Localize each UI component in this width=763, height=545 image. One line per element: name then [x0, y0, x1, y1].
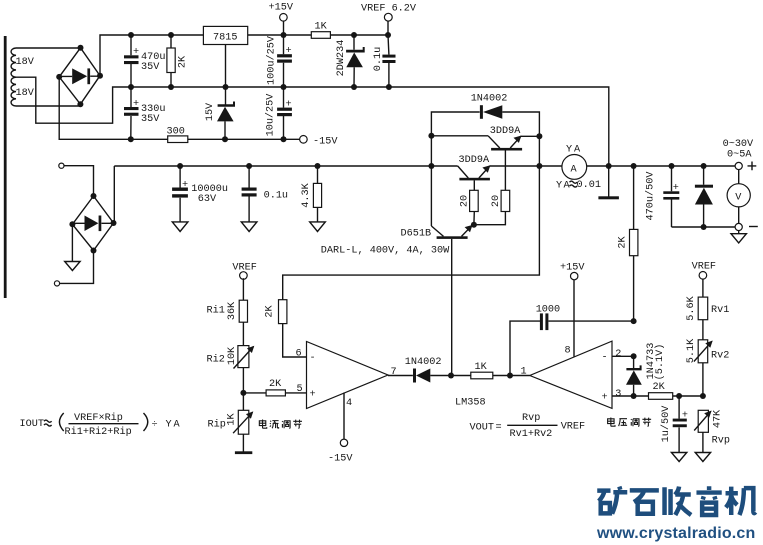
svg-text:+: + — [286, 100, 292, 111]
ground bar under Rip — [235, 451, 252, 454]
svg-text:1: 1 — [521, 367, 527, 378]
terminal output minus — [735, 223, 758, 230]
svg-text:+: + — [310, 390, 316, 401]
node 2K sense top — [631, 163, 637, 169]
node diode bottom — [701, 224, 707, 230]
svg-text:-: - — [310, 353, 316, 364]
svg-text:470u/50V: 470u/50V — [645, 171, 657, 221]
svg-text:2K: 2K — [177, 55, 188, 68]
node 470u bottom — [128, 84, 134, 90]
svg-text:18V: 18V — [16, 57, 35, 68]
node collector bus — [428, 163, 434, 169]
diode 1N4002 (op1 output) — [405, 357, 471, 383]
node 0.1u(2) top — [246, 163, 252, 169]
svg-text:1K: 1K — [227, 413, 238, 426]
svg-text:18V: 18V — [16, 88, 35, 99]
resistor 1K (op2 out to base) — [471, 362, 530, 379]
wire current sense rail — [283, 166, 540, 300]
svg-text:10u/25V: 10u/25V — [265, 93, 277, 137]
ammeter A — [556, 145, 601, 192]
bridge rectifier B1 — [56, 45, 103, 107]
node pin3 — [631, 393, 637, 399]
svg-text:+15V: +15V — [560, 263, 585, 274]
formula IOUT — [20, 412, 181, 438]
capacitor 0.1u (vref) — [373, 35, 395, 87]
node 2DW234 anode — [351, 84, 357, 90]
wire op2 pin2 — [612, 355, 634, 357]
svg-text:36K: 36K — [227, 301, 238, 320]
node common ref — [606, 163, 612, 169]
svg-text:2K: 2K — [618, 236, 629, 249]
svg-text:Ri1+Ri2+Rip: Ri1+Ri2+Rip — [65, 426, 132, 438]
watermark 矿石收音机 — [597, 486, 755, 515]
resistor 20 (right base ballast) — [474, 190, 510, 224]
svg-text:-15V: -15V — [313, 137, 338, 148]
svg-text:www.crystalradio.cn: www.crystalradio.cn — [596, 525, 755, 542]
node Q1 emitter — [536, 133, 542, 166]
svg-text:(5.1V): (5.1V) — [654, 344, 666, 381]
svg-text:A: A — [574, 145, 581, 156]
op-amp U1A LM358 (current) — [296, 342, 397, 410]
svg-text:VREF: VREF — [692, 262, 716, 273]
svg-text:5: 5 — [297, 384, 303, 395]
label output range — [723, 139, 754, 161]
node 10000u top — [177, 163, 183, 169]
svg-text:2: 2 — [615, 349, 621, 360]
transistor Q1 3DD9A (upper) — [488, 126, 539, 190]
resistor 20 (left base ballast) — [460, 190, 479, 224]
node feedback — [631, 318, 637, 324]
potentiometer Ri2 10K — [207, 346, 255, 393]
node 10u bottom — [281, 136, 287, 142]
capacitor 10000u/63V — [172, 166, 228, 232]
transformer T1 core bar — [4, 36, 7, 298]
svg-text:2K: 2K — [265, 305, 276, 318]
svg-text:0.1u: 0.1u — [264, 191, 288, 202]
svg-text:V: V — [735, 193, 742, 204]
svg-text:VOUT: VOUT — [470, 423, 494, 434]
wire output rail after ammeter — [587, 165, 736, 167]
node 1u top — [676, 393, 682, 399]
label 电压调节 voltage adjust — [608, 417, 652, 426]
svg-text:0~30V: 0~30V — [723, 139, 754, 150]
node 7815 gnd — [223, 84, 229, 90]
resistor 2K (bleeder) — [167, 35, 189, 87]
watermark url — [596, 525, 755, 542]
capacitor 470u/50V — [645, 166, 680, 227]
svg-text:100u/25V: 100u/25V — [266, 35, 278, 85]
resistor Ri1 36K — [207, 300, 248, 345]
svg-text:7815: 7815 — [213, 32, 237, 43]
capacitor 0.1u (main filter) — [241, 166, 288, 232]
wire op2 pin3 — [612, 395, 649, 397]
svg-text:1000: 1000 — [536, 305, 560, 316]
node op2 out — [507, 373, 513, 379]
svg-text:63V: 63V — [198, 194, 217, 205]
svg-text:+: + — [602, 393, 608, 404]
svg-text:LM358: LM358 — [455, 398, 486, 409]
svg-text:3: 3 — [615, 389, 621, 400]
svg-text:1K: 1K — [475, 362, 488, 373]
terminal -15V — [300, 136, 339, 148]
zener 2DW234 — [336, 35, 365, 87]
svg-text:VREF×Rip: VREF×Rip — [74, 412, 123, 424]
svg-text:3DD9A: 3DD9A — [459, 155, 490, 166]
svg-text:+: + — [133, 99, 139, 110]
ground B2 left vertex — [65, 224, 80, 270]
zener 1N4733 — [626, 343, 666, 396]
label 电流调节 current adjust — [259, 419, 302, 428]
svg-text:VREF 6.2V: VREF 6.2V — [361, 4, 417, 15]
svg-text:+: + — [133, 47, 139, 58]
capacitor 1000 (feedback) — [510, 305, 634, 376]
svg-text:Υ: Υ — [556, 181, 562, 192]
wire -15 rail right segment — [188, 138, 300, 140]
wire 7815 out — [248, 34, 312, 36]
node collector rail top — [428, 133, 488, 139]
svg-text:Υ: Υ — [166, 420, 172, 431]
terminal +15V (op2 pin8) — [560, 263, 585, 357]
wire output bottom rail — [672, 226, 736, 228]
svg-text:A: A — [571, 165, 578, 176]
wire winding center tap to 0V rail — [16, 77, 131, 123]
svg-text:Rvp: Rvp — [712, 436, 730, 447]
svg-text:-15V: -15V — [328, 454, 353, 465]
svg-text:IOUT: IOUT — [20, 419, 44, 430]
wire winding2 bottom to bridge B1 bottom — [16, 104, 80, 106]
svg-text:+: + — [182, 180, 188, 191]
svg-text:35V: 35V — [141, 114, 160, 125]
svg-text:5.6K: 5.6K — [686, 295, 697, 320]
zener 15V — [205, 87, 235, 139]
svg-text:Rv2: Rv2 — [711, 351, 729, 362]
resistor 300 — [167, 127, 188, 143]
resistor 2K (to op1 pin5) — [243, 379, 306, 396]
svg-text:20: 20 — [491, 195, 502, 207]
regulator U2 7815 — [203, 26, 247, 87]
svg-text:7: 7 — [391, 367, 397, 378]
wire B1 minus output down to -15 rail — [59, 77, 168, 139]
potentiometer Rv2 5.1K — [686, 338, 729, 396]
node 330u bottom — [128, 136, 134, 142]
svg-text:Ri2: Ri2 — [207, 354, 225, 366]
capacitor 330u/35V — [124, 87, 165, 139]
svg-text:5.1K: 5.1K — [686, 338, 697, 363]
transformer winding 18V (lower) — [11, 77, 35, 106]
terminal AC in top — [59, 163, 94, 196]
terminal output plus — [735, 162, 756, 171]
wire collector bus vertical — [430, 136, 432, 226]
svg-text:1N4002: 1N4002 — [471, 94, 508, 105]
svg-text:0.1u: 0.1u — [373, 47, 384, 71]
svg-text:35V: 35V — [141, 62, 160, 73]
resistor 2K (op1 feedback) — [265, 300, 307, 357]
wire main rail left (B2 + output to pass transistors) — [114, 166, 457, 223]
terminal -15V (op1 pin4) — [328, 393, 353, 465]
svg-text:20: 20 — [460, 195, 471, 207]
svg-text:1u/50V: 1u/50V — [660, 405, 672, 443]
node Rvp top — [700, 393, 706, 399]
svg-text:+: + — [286, 46, 292, 57]
resistor 4.3K — [301, 166, 325, 232]
svg-text:1N4002: 1N4002 — [405, 357, 442, 368]
bridge rectifier B2 — [69, 193, 116, 254]
terminal VREF 6.2V — [361, 4, 417, 35]
resistor 1K (to VREF zener) — [311, 22, 388, 39]
svg-text:Rv1: Rv1 — [711, 305, 729, 316]
op-amp U1B LM358 (voltage) — [521, 341, 622, 408]
wire winding1 top to bridge B1 — [16, 47, 81, 49]
node 0.1u bottom — [386, 84, 392, 90]
node base drive / diode — [448, 373, 454, 379]
svg-text:300: 300 — [167, 127, 185, 138]
transistor Q2 3DD9A (lower) — [458, 155, 491, 190]
terminal AC in bottom — [54, 251, 93, 287]
svg-text:2DW234: 2DW234 — [336, 40, 347, 77]
svg-text:2K: 2K — [653, 382, 666, 393]
diode 1N4002 (reverse protection across pass transistors) — [431, 94, 539, 137]
capacitor 470u/35V — [124, 35, 165, 87]
potentiometer Rip 1K — [208, 393, 254, 452]
wire op1 output — [388, 375, 413, 377]
node protection diode top — [701, 163, 707, 169]
capacitor 10u/25V — [265, 87, 292, 139]
svg-text:4: 4 — [346, 398, 352, 409]
wire B1 plus output to +rail — [100, 35, 203, 76]
terminal VREF (current set) — [232, 263, 256, 301]
svg-text:+15V: +15V — [269, 3, 294, 14]
transistor Q3 D651B darlington — [321, 225, 473, 376]
svg-text:3DD9A: 3DD9A — [490, 126, 521, 137]
node pin2 — [631, 353, 637, 359]
potentiometer Rvp 47K — [694, 409, 730, 462]
formula VOUT — [470, 413, 586, 440]
node 4.3K top — [315, 163, 321, 169]
svg-text:6: 6 — [296, 349, 302, 360]
node 2K bottom — [168, 84, 174, 90]
wire Q2 emitter to output rail — [490, 165, 562, 167]
voltmeter V — [727, 170, 750, 224]
node main rail / sense — [536, 163, 542, 169]
svg-text:Rv1+Rv2: Rv1+Rv2 — [510, 429, 553, 440]
node vref — [385, 32, 391, 38]
svg-text:÷: ÷ — [152, 420, 158, 431]
node 470u top — [128, 32, 134, 38]
svg-text:-: - — [602, 353, 608, 364]
node current set — [240, 390, 246, 396]
node 15V zener bottom — [222, 136, 228, 142]
svg-text:+: + — [673, 183, 679, 194]
diode output protection — [695, 166, 713, 227]
transformer winding 18V (upper) — [11, 48, 35, 77]
svg-text:D651B: D651B — [401, 229, 432, 240]
capacitor 1u/50V — [660, 396, 688, 462]
svg-text:2K: 2K — [269, 379, 282, 390]
svg-text:DARL-L, 400V, 4A, 30W: DARL-L, 400V, 4A, 30W — [321, 245, 450, 256]
svg-text:8: 8 — [565, 346, 571, 357]
node 2DW234 cathode — [351, 32, 357, 38]
svg-text:Ri1: Ri1 — [207, 305, 225, 317]
svg-text:1K: 1K — [315, 22, 328, 33]
svg-text:Υ: Υ — [566, 145, 572, 156]
node base drive — [471, 222, 477, 228]
terminal VREF (voltage set) — [692, 262, 716, 298]
label LM358 — [455, 398, 486, 409]
node 470u/50V top — [669, 163, 675, 169]
svg-text:+: + — [682, 411, 688, 422]
svg-text:A: A — [174, 420, 181, 431]
node 2K top — [168, 32, 174, 38]
svg-text:4.3K: 4.3K — [301, 182, 312, 207]
svg-text:=: = — [496, 423, 502, 434]
svg-text:0~5A: 0~5A — [727, 150, 752, 161]
svg-text:0.01: 0.01 — [577, 180, 601, 191]
svg-text:15V: 15V — [205, 102, 216, 121]
0V rail of aux supply — [131, 87, 609, 166]
svg-text:Rvp: Rvp — [522, 413, 540, 424]
svg-text:10K: 10K — [227, 346, 238, 365]
node 100u bottom — [281, 84, 287, 90]
resistor 2K (voltage set) — [649, 382, 703, 399]
node +15V tap — [281, 32, 287, 38]
ground output — [731, 230, 746, 243]
resistor 2K (current sense divider) — [618, 166, 638, 321]
terminal +15V — [269, 3, 294, 35]
ground bar at common ref — [598, 166, 619, 199]
capacitor 100u/25V — [266, 35, 292, 87]
svg-text:47K: 47K — [713, 409, 724, 428]
svg-text:Rip: Rip — [208, 419, 226, 431]
svg-text:VREF: VREF — [561, 422, 585, 433]
resistor Rv1 5.6K — [686, 295, 729, 339]
svg-text:VREF: VREF — [232, 263, 256, 274]
